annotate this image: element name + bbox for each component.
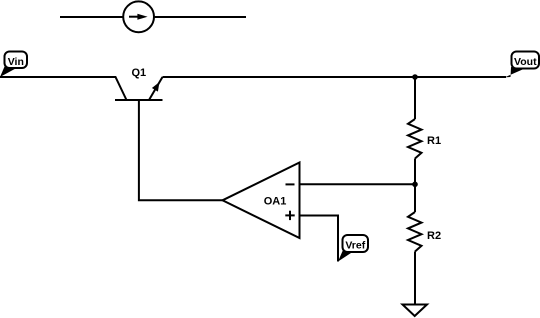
svg-text:Vref: Vref: [345, 240, 365, 252]
svg-text:Q1: Q1: [132, 67, 147, 79]
resistor R2: [408, 212, 422, 252]
svg-text:OA1: OA1: [264, 196, 287, 208]
op-amp OA1: [223, 163, 300, 239]
ground: [403, 305, 428, 317]
label R2: [427, 230, 441, 242]
wire current source rail: [60, 16, 246, 18]
node feedback junction: [412, 182, 418, 188]
wire Vin to Q1 emitter: [0, 77, 127, 100]
transistor Q1: [115, 77, 163, 100]
wire R2 to ground: [414, 252, 416, 305]
svg-text:R2: R2: [427, 230, 441, 242]
svg-text:R1: R1: [427, 135, 441, 147]
label R1: [427, 135, 441, 147]
net flag Vin: [0, 52, 27, 78]
net flag Vref: [338, 235, 368, 262]
wire Q1 base to OA1 output: [139, 100, 223, 200]
wire feedback node to OA1 minus input: [300, 183, 416, 185]
wire rail to R1: [414, 77, 416, 119]
resistor R1: [408, 119, 422, 159]
node junction rail/R1: [412, 74, 418, 80]
wire Q1 collector to Vout rail: [163, 76, 507, 78]
current source I1: [123, 1, 154, 32]
label Q1: [132, 67, 147, 79]
wire R1 to feedback node: [414, 159, 416, 185]
wire feedback node to R2: [414, 184, 416, 212]
wire OA1 plus input to Vref: [300, 216, 339, 262]
svg-text:Vin: Vin: [8, 56, 24, 68]
svg-text:Vout: Vout: [514, 56, 537, 68]
label OA1: [264, 196, 287, 208]
net flag Vout: [505, 52, 539, 78]
